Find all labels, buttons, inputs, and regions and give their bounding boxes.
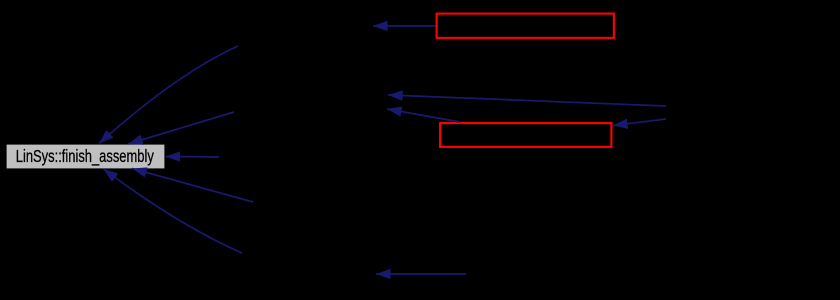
wire edge E2 line to top of gray node: [128, 112, 234, 144]
arrowhead E3: [166, 151, 181, 161]
wire edge ER2 into red box 2 right: [613, 119, 666, 126]
svg-text:LinSys::finish_assembly: LinSys::finish_assembly: [16, 146, 154, 167]
arrowhead EM2b: [387, 106, 402, 116]
wire edge EM2b from red box 2 top: [387, 109, 460, 122]
arrowhead E1: [99, 130, 113, 144]
wire edge E3 horizontal into right of gray node: [166, 156, 219, 159]
arrowhead E2: [128, 135, 144, 145]
arrowhead ER2: [613, 119, 628, 129]
wire edge Etop from red box 1: [373, 25, 436, 27]
arrowhead E4: [132, 167, 148, 177]
wire edge E4 line to bottom of gray node: [132, 169, 253, 203]
wire edge E1 curve to top of gray node: [99, 46, 238, 144]
node red box 1 (top): [437, 14, 614, 38]
arrowhead E5: [104, 169, 119, 182]
wire edge E6 bottom horizontal: [376, 273, 466, 275]
wire edge ER1 long from right: [388, 95, 666, 106]
arrowhead ER1: [388, 90, 403, 100]
node LinSys::finish_assembly: [6, 144, 165, 169]
arrowhead Etop: [373, 21, 388, 31]
node red box 2 (middle): [440, 123, 611, 147]
wire edge E5 curve to bottom of gray node: [104, 169, 243, 253]
arrowhead E6: [376, 269, 391, 279]
